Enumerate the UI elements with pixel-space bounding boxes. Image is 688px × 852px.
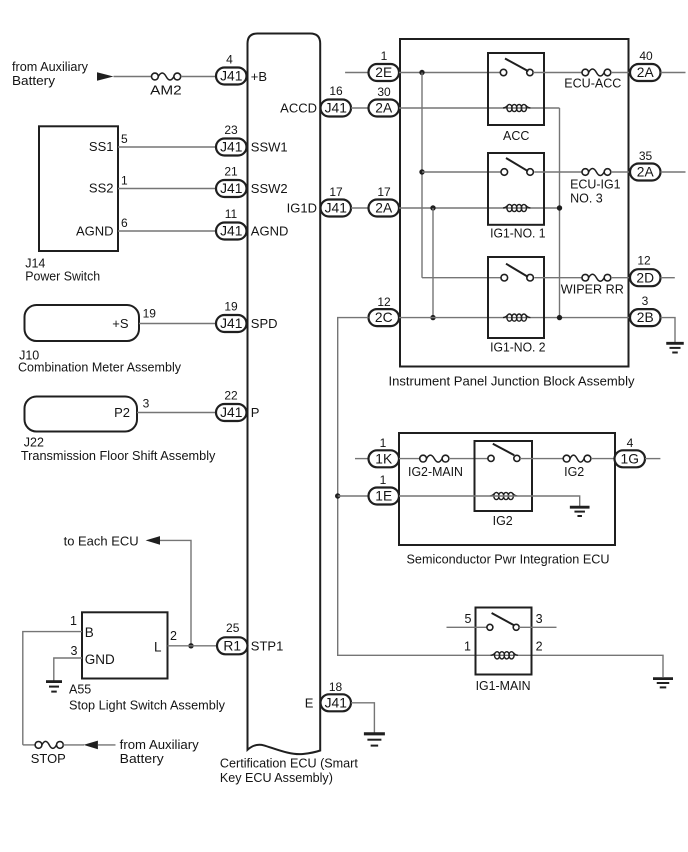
fuse ECU-ACC (582, 69, 611, 76)
relay IG1-MAIN contacts and blade (487, 613, 519, 630)
wire stub left of 2E (345, 72, 368, 74)
wire fuse to 2A 40 (611, 72, 630, 74)
svg-text:2: 2 (170, 629, 177, 643)
svg-text:to Each ECU: to Each ECU (64, 535, 139, 549)
svg-text:Power Switch: Power Switch (25, 269, 100, 283)
relay ACC box (488, 53, 544, 125)
fuse ECU-IG1 NO. 3 (582, 169, 611, 176)
svg-text:Stop Light Switch Assembly: Stop Light Switch Assembly (69, 698, 226, 712)
svg-text:ECU-ACC: ECU-ACC (564, 77, 621, 91)
connector 2B pin 3 (630, 309, 661, 326)
node junction STP1 branch (188, 643, 193, 648)
svg-text:J41: J41 (325, 101, 347, 116)
label ECU-IG1 NO. 3 (570, 177, 621, 205)
node junction 2E vertical (419, 70, 424, 75)
fuse IG2 (563, 455, 591, 462)
block Instrument Panel Junction Block Assembly (400, 39, 629, 367)
svg-text:J41: J41 (220, 140, 242, 155)
wire IG2 switch to fuse IG2 (520, 458, 563, 460)
fuse WIPER RR (582, 274, 611, 281)
svg-text:3: 3 (536, 612, 543, 626)
relay IG1-NO.1 coil L2 (503, 204, 530, 211)
svg-text:22: 22 (224, 388, 238, 402)
svg-text:1G: 1G (621, 451, 639, 466)
wire stub right of 2D (661, 277, 675, 279)
svg-text:12: 12 (637, 254, 651, 268)
svg-text:ACC: ACC (503, 129, 529, 143)
connector 1G pin 4 (615, 450, 646, 467)
svg-text:1: 1 (380, 473, 387, 487)
fuse IG2-MAIN (420, 455, 449, 462)
wire arrow stub (98, 744, 116, 746)
wire AGND to J41 pin 11 (118, 230, 216, 232)
fuse STOP (35, 741, 63, 748)
label J14 (25, 257, 45, 271)
relay ACC contacts and blade (500, 59, 533, 76)
relay IG1-NO.2 coil L3 (503, 314, 530, 321)
svg-text:IG1D: IG1D (287, 201, 317, 216)
svg-text:J41: J41 (220, 181, 242, 196)
svg-text:NO. 3: NO. 3 (570, 192, 603, 206)
connector R1 pin 25 (217, 637, 248, 654)
svg-text:AGND: AGND (251, 224, 289, 239)
wire J41 17 to 2A 17 (351, 207, 369, 209)
connector 2A pin 35 (630, 164, 661, 181)
connector J41 pin 23 (216, 139, 247, 156)
svg-text:4: 4 (226, 52, 233, 66)
wire E to ground (351, 703, 374, 733)
svg-text:A55: A55 (69, 683, 91, 697)
svg-text:40: 40 (639, 49, 653, 63)
relay IG1-MAIN box (476, 608, 532, 675)
connector J41 pin 22 (216, 404, 247, 421)
wire ACC switch to fuse ECU-ACC (533, 72, 582, 74)
svg-text:ECU-IG1: ECU-IG1 (570, 177, 621, 191)
block Semiconductor Pwr Integration ECU (399, 433, 615, 545)
svg-text:2C: 2C (375, 310, 393, 325)
wire vertical bus x433 (432, 208, 434, 318)
relay IG1-NO.2 contacts and blade (501, 264, 533, 281)
svg-text:GND: GND (85, 652, 115, 667)
svg-text:AM2: AM2 (150, 83, 182, 98)
wire SS2 to J41 pin 21 (118, 188, 216, 190)
label Certification ECU caption (220, 757, 359, 785)
fuse AM2 (152, 73, 181, 80)
svg-text:1K: 1K (375, 451, 393, 466)
relay IG1-NO.2 box (488, 257, 544, 338)
svg-text:Instrument Panel Junction Bloc: Instrument Panel Junction Block Assembly (389, 374, 636, 388)
svg-text:L: L (154, 640, 162, 655)
wire bus to IG1-NO.2 switch (422, 277, 501, 279)
svg-text:SPD: SPD (251, 316, 278, 331)
wire IG1-NO.1 switch to fuse (534, 171, 582, 173)
component A55 Stop Light Switch Assembly box (82, 612, 168, 678)
svg-text:SSW2: SSW2 (251, 181, 288, 196)
wire J41 16 to 2A 30 (351, 107, 369, 109)
svg-text:P: P (251, 405, 260, 420)
wire 2C down to IG2 and IG1-MAIN feed (338, 318, 663, 677)
connector J41 pin 17 (321, 200, 352, 217)
svg-text:Combination Meter Assembly: Combination Meter Assembly (18, 360, 182, 374)
svg-text:J41: J41 (220, 224, 242, 239)
label from Auxiliary Battery (top left) (12, 60, 89, 88)
wire stub right of 2A 40 (661, 72, 686, 74)
connector J41 pin 18 (321, 694, 352, 711)
arrow from auxiliary battery (bottom) (84, 741, 98, 750)
label from Auxiliary Battery (bottom) (120, 738, 200, 766)
svg-text:IG2: IG2 (564, 465, 584, 479)
svg-text:30: 30 (377, 85, 391, 99)
svg-text:Transmission Floor Shift Assem: Transmission Floor Shift Assembly (21, 449, 216, 463)
wire STOP fuse to arrow (63, 744, 84, 746)
connector 2C pin 12 (369, 309, 400, 326)
svg-text:3: 3 (71, 644, 78, 658)
wire stub right of IG1-MAIN switch (519, 626, 556, 628)
wire 2C row into block to 2B (399, 317, 630, 319)
connector 1E pin 1 (369, 488, 400, 505)
wire P2 to J41 pin 22 (137, 412, 216, 414)
svg-text:17: 17 (377, 185, 391, 199)
wire stop light feed bottom (23, 744, 35, 746)
relay IG1-NO.1 box (488, 153, 544, 225)
wire fuse to 2A 35 (611, 171, 630, 173)
connector 2E pin 1 (369, 64, 400, 81)
svg-text:STP1: STP1 (251, 638, 284, 653)
svg-text:6: 6 (121, 216, 128, 230)
svg-text:+B: +B (251, 69, 267, 84)
wire to Each ECU branch (160, 540, 191, 645)
wire vertical bus x422 (421, 73, 423, 278)
arrow to Each ECU (146, 536, 160, 545)
wire stub left of IG1-MAIN switch (447, 626, 487, 628)
svg-text:AGND: AGND (76, 224, 114, 239)
wire ACCD into block to ACC coil (399, 107, 560, 109)
svg-text:3: 3 (143, 397, 150, 411)
svg-text:16: 16 (329, 84, 343, 98)
svg-text:1: 1 (70, 614, 77, 628)
svg-text:19: 19 (224, 299, 238, 313)
wire 1K to fuse IG2-MAIN (399, 458, 420, 460)
svg-text:1: 1 (381, 49, 388, 63)
wire 2E into block to ACC switch (399, 72, 500, 74)
svg-text:19: 19 (143, 307, 157, 321)
svg-text:21: 21 (224, 164, 238, 178)
svg-text:IG1-MAIN: IG1-MAIN (476, 679, 531, 693)
relay IG2 coil L4 (490, 492, 517, 499)
svg-text:2A: 2A (375, 101, 393, 116)
node junction coil bus top (430, 205, 435, 210)
connector J41 pin 4 (216, 68, 247, 85)
node junction IG1-NO.1 coil return (557, 205, 562, 210)
wire IG1D into block to IG1-NO.1 coil (399, 207, 560, 209)
wire fuse to 2D 12 (611, 277, 630, 279)
svg-text:12: 12 (377, 295, 391, 309)
arrow feed from auxiliary battery (97, 72, 114, 81)
svg-text:2A: 2A (375, 201, 393, 216)
svg-text:3: 3 (642, 294, 649, 308)
node junction IG1-NO.1 switch feed (419, 169, 424, 174)
component J10 Combination Meter Assembly box (25, 305, 140, 341)
ground E (364, 734, 385, 746)
svg-text:1E: 1E (375, 489, 392, 504)
wire fuse AM2 to connector J41 pin 4 (181, 76, 216, 78)
wire stub left of 1K (355, 458, 369, 460)
svg-text:J41: J41 (325, 695, 347, 710)
svg-text:23: 23 (224, 123, 238, 137)
svg-text:18: 18 (329, 680, 343, 694)
wire +S to J41 pin 19 (139, 323, 216, 325)
ground 2B (666, 343, 684, 352)
svg-text:1: 1 (464, 640, 471, 654)
wire arrow to fuse AM2 (114, 76, 152, 78)
node junction coil bus bottom (430, 315, 435, 320)
connector J41 pin 16 (321, 100, 352, 117)
ground A55 (46, 682, 62, 692)
svg-text:+S: +S (112, 316, 129, 331)
wire IG1-NO.2 switch to fuse WIPER RR (534, 277, 582, 279)
svg-text:2A: 2A (637, 165, 655, 180)
node junction IG1-NO.2 coil return (557, 315, 562, 320)
svg-text:SSW1: SSW1 (251, 140, 288, 155)
svg-text:4: 4 (627, 436, 634, 450)
svg-text:J41: J41 (220, 316, 242, 331)
wire L to R1 pin 25 (168, 645, 218, 647)
svg-text:STOP: STOP (31, 752, 66, 766)
relay ACC coil L1 (503, 104, 530, 111)
wire GND to ground (54, 658, 82, 681)
wire bus to IG1-NO.1 switch (422, 171, 501, 173)
svg-text:35: 35 (639, 149, 653, 163)
wire 2B to ground (661, 318, 676, 342)
component J22 Transmission Floor Shift Assembly box (25, 397, 138, 432)
svg-text:IG2: IG2 (493, 514, 513, 528)
relay IG2 contacts and blade (488, 444, 520, 462)
svg-text:1: 1 (380, 436, 387, 450)
svg-text:IG2-MAIN: IG2-MAIN (408, 465, 463, 479)
wire battery feed to pin B (23, 632, 82, 745)
svg-text:2D: 2D (636, 270, 654, 285)
svg-text:Semiconductor Pwr Integration: Semiconductor Pwr Integration ECU (407, 553, 610, 567)
svg-text:Key ECU Assembly): Key ECU Assembly) (220, 771, 333, 785)
connector 2A pin 30 (369, 100, 400, 117)
connector 2A pin 40 (630, 64, 661, 81)
wire SS1 to J41 pin 23 (118, 146, 216, 148)
relay IG2 box (475, 441, 533, 511)
svg-text:Battery: Battery (12, 74, 56, 88)
wire stub right of 2A 35 (661, 171, 686, 173)
connector J41 pin 19 (216, 315, 247, 332)
svg-text:1: 1 (121, 174, 128, 188)
component J14 Power Switch box (39, 126, 118, 251)
wire tap to 1E (338, 495, 369, 497)
wire stub right of 1G (645, 458, 660, 460)
wire fuse to IG2 relay switch (449, 458, 488, 460)
svg-text:5: 5 (121, 132, 128, 146)
svg-text:IG1-NO. 2: IG1-NO. 2 (490, 341, 546, 355)
relay IG1-NO.1 contacts and blade (501, 158, 533, 175)
wire fuse IG2 to 1G (591, 458, 615, 460)
svg-text:25: 25 (226, 621, 240, 635)
svg-text:2E: 2E (375, 65, 392, 80)
svg-text:J22: J22 (24, 436, 44, 450)
ground IG2 (570, 507, 590, 516)
svg-text:5: 5 (465, 612, 472, 626)
connector 1K pin 1 (369, 450, 400, 467)
svg-text:17: 17 (329, 185, 343, 199)
svg-text:Battery: Battery (120, 752, 165, 766)
svg-text:from Auxiliary: from Auxiliary (120, 738, 200, 752)
svg-text:J41: J41 (220, 69, 242, 84)
svg-text:SS1: SS1 (89, 139, 114, 154)
relay IG1-MAIN coil L5 (491, 652, 518, 659)
svg-text:P2: P2 (114, 405, 130, 420)
svg-text:B: B (85, 625, 94, 640)
svg-text:IG1-NO. 1: IG1-NO. 1 (490, 226, 546, 240)
svg-text:from Auxiliary: from Auxiliary (12, 60, 89, 74)
wire 1E to IG2 coil and ground (399, 496, 580, 506)
svg-text:2A: 2A (637, 65, 655, 80)
svg-text:ACCD: ACCD (280, 101, 317, 116)
svg-text:E: E (305, 696, 314, 711)
connector J41 pin 11 (216, 223, 247, 240)
svg-text:2: 2 (536, 640, 543, 654)
svg-text:WIPER RR: WIPER RR (561, 283, 624, 297)
svg-text:SS2: SS2 (89, 181, 114, 196)
svg-text:11: 11 (225, 207, 238, 221)
wire vertical bus x559 (coil returns) (559, 108, 561, 318)
connector 2D pin 12 (630, 269, 661, 286)
svg-text:R1: R1 (223, 638, 241, 653)
ground IG1-MAIN (653, 679, 673, 688)
node junction 1E tap (335, 493, 340, 498)
connector 2A pin 17 (369, 200, 400, 217)
svg-text:J41: J41 (220, 405, 242, 420)
ECU U1 Certification ECU (Smart Key ECU Assembly) body (248, 34, 321, 755)
svg-text:J41: J41 (325, 201, 347, 216)
connector J41 pin 21 (216, 180, 247, 197)
svg-text:2B: 2B (637, 310, 654, 325)
svg-text:Certification ECU (Smart: Certification ECU (Smart (220, 757, 359, 771)
